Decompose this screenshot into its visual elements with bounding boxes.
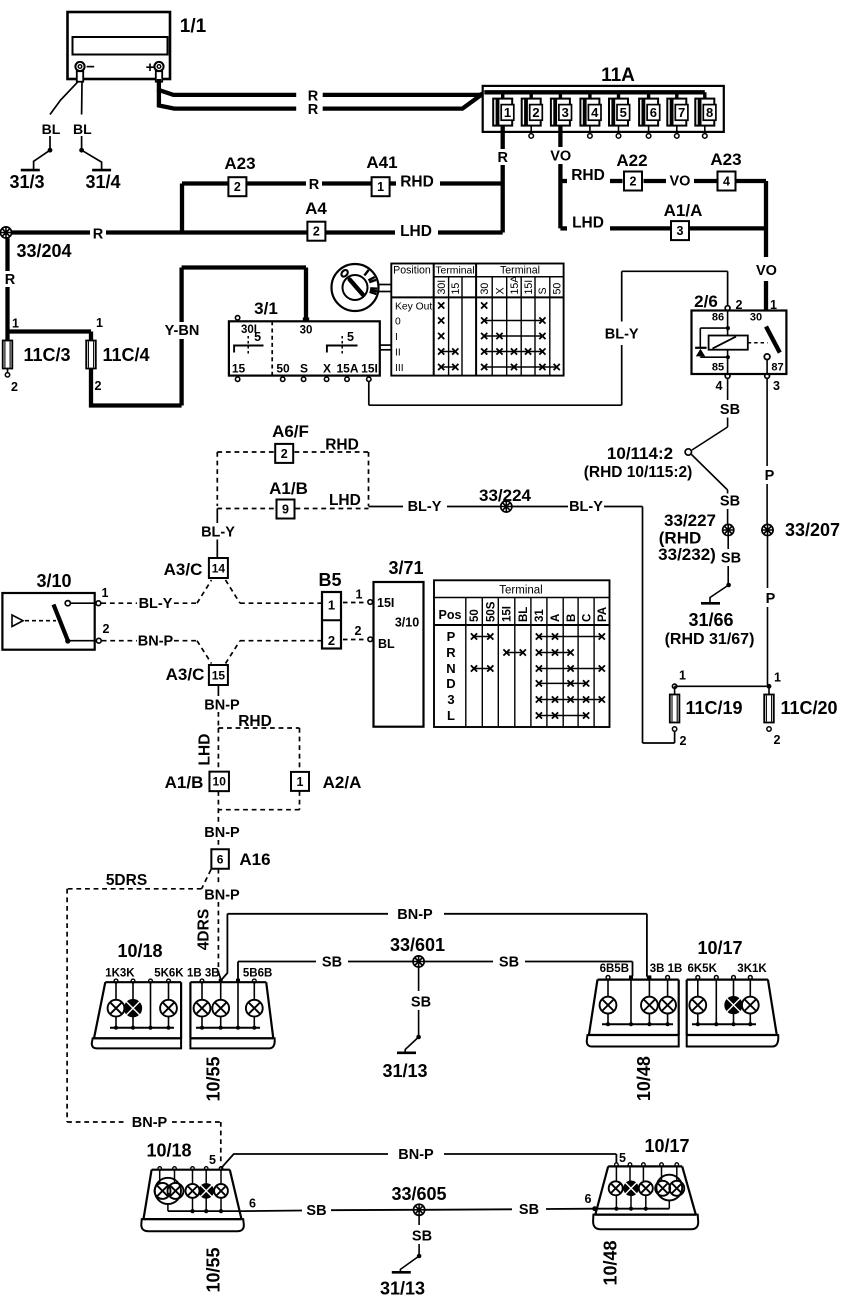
svg-text:SB: SB bbox=[720, 402, 740, 418]
svg-text:50: 50 bbox=[552, 283, 564, 295]
svg-text:6: 6 bbox=[585, 1192, 592, 1206]
svg-text:A: A bbox=[550, 614, 562, 622]
splice 33/227 bbox=[658, 511, 734, 564]
wire LHD branch right (A1/A) bbox=[560, 226, 766, 230]
svg-text:2: 2 bbox=[95, 379, 102, 393]
svg-text:BL: BL bbox=[73, 121, 92, 137]
svg-text:10/17: 10/17 bbox=[644, 1136, 689, 1156]
connector A22 pin 2 bbox=[624, 172, 642, 191]
svg-text:1K3K: 1K3K bbox=[105, 968, 135, 980]
svg-text:BL: BL bbox=[42, 121, 61, 137]
wire Y-BN from fuse 11C/4 to ignition switch 3/1 terminal 30 bbox=[91, 268, 306, 406]
svg-text:3: 3 bbox=[562, 105, 569, 120]
wire dashed B5 pin1 to 3/71 terminal 15I bbox=[343, 588, 366, 603]
svg-text:Position: Position bbox=[393, 265, 431, 277]
wire R from splice 33/204 down to fuse 11C/3 bbox=[5, 238, 9, 341]
svg-text:C: C bbox=[581, 614, 593, 622]
ground 31/66 bbox=[665, 603, 755, 648]
svg-text:BL-Y: BL-Y bbox=[408, 499, 442, 515]
wire RHD dashed branch A2/A bbox=[218, 728, 299, 772]
svg-text:BN-P: BN-P bbox=[398, 1147, 434, 1163]
svg-text:15: 15 bbox=[232, 362, 246, 376]
ground 31/3 bbox=[9, 170, 44, 192]
wire SB lamp row with splice 33/601 bbox=[238, 962, 633, 981]
svg-text:1: 1 bbox=[679, 669, 686, 683]
wire BL-Y from 3/1 terminal 15I to relay 2/6 terminal 86 bbox=[369, 271, 728, 405]
svg-text:SB: SB bbox=[721, 551, 741, 567]
svg-text:6: 6 bbox=[249, 1197, 256, 1211]
wire BN-P dashed 3/10 pin2 to B5 pin2 via A3/C 15 bbox=[102, 641, 321, 664]
wire RHD branch right (A22/A23) bbox=[560, 179, 766, 183]
svg-text:A3/C: A3/C bbox=[166, 665, 205, 684]
svg-text:BN-P: BN-P bbox=[397, 907, 433, 923]
svg-text:X: X bbox=[494, 287, 506, 294]
svg-text:9: 9 bbox=[282, 503, 289, 517]
splice 33/224 bbox=[479, 486, 532, 512]
svg-text:A2/A: A2/A bbox=[323, 773, 362, 792]
svg-text:33/232): 33/232) bbox=[658, 545, 716, 564]
fuse 11C/19 bbox=[670, 669, 743, 749]
svg-text:11C/20: 11C/20 bbox=[780, 698, 837, 718]
svg-text:3/10: 3/10 bbox=[36, 571, 71, 591]
svg-text:1: 1 bbox=[377, 180, 384, 194]
wire SB splice 33/605 to ground 31/13 lower bbox=[400, 1216, 421, 1272]
splice 33/605 bbox=[391, 1184, 446, 1215]
svg-text:1: 1 bbox=[356, 588, 363, 602]
svg-text:D: D bbox=[446, 676, 455, 691]
svg-text:A16: A16 bbox=[239, 850, 270, 869]
svg-text:31/66: 31/66 bbox=[688, 610, 733, 630]
svg-text:30I: 30I bbox=[436, 280, 448, 295]
svg-text:A41: A41 bbox=[366, 153, 397, 172]
svg-text:4: 4 bbox=[716, 379, 723, 393]
connector A2/A pin 1 bbox=[291, 772, 309, 791]
splice 33/207 bbox=[762, 520, 840, 540]
svg-text:BL-Y: BL-Y bbox=[605, 326, 639, 342]
svg-text:2: 2 bbox=[630, 175, 637, 189]
svg-text:III: III bbox=[395, 363, 404, 374]
wire SB bottom row with splice 33/605 bbox=[243, 1192, 597, 1211]
svg-text:1: 1 bbox=[96, 316, 103, 330]
connector A3/C pin 15 bbox=[166, 665, 228, 685]
svg-text:1: 1 bbox=[770, 298, 777, 312]
svg-text:BN-P: BN-P bbox=[138, 634, 174, 650]
svg-text:−: − bbox=[86, 59, 95, 76]
svg-text:3B 1B: 3B 1B bbox=[650, 963, 683, 975]
wire BL-Y splice 33/224 down to fuse 11C/19 bbox=[643, 507, 675, 744]
svg-text:1B 3B: 1B 3B bbox=[187, 968, 220, 980]
svg-text:2: 2 bbox=[11, 380, 18, 394]
connector A6/F pin 2 bbox=[275, 444, 293, 463]
wire BN-P to rear lamps 10/55 and 10/48 bbox=[221, 914, 650, 981]
svg-text:8: 8 bbox=[706, 105, 713, 120]
relay 2/6 bbox=[692, 292, 787, 393]
svg-text:31: 31 bbox=[534, 609, 546, 622]
svg-text:P: P bbox=[765, 468, 775, 484]
wire LHD branch left (A4) to splice 33/204 bbox=[12, 230, 503, 234]
wire BL-Y from A1/B to splice 33/224 bbox=[369, 506, 643, 508]
svg-text:3: 3 bbox=[447, 692, 454, 707]
wire BL battery negative to ground 31/3 bbox=[34, 82, 78, 170]
svg-text:33/605: 33/605 bbox=[391, 1184, 446, 1204]
svg-text:Terminal: Terminal bbox=[499, 585, 542, 597]
svg-text:BL-Y: BL-Y bbox=[569, 499, 603, 515]
svg-text:R: R bbox=[497, 150, 508, 166]
svg-text:R: R bbox=[308, 102, 319, 118]
svg-text:A6/F: A6/F bbox=[272, 422, 309, 441]
svg-text:SB: SB bbox=[519, 1202, 539, 1218]
svg-text:Terminal: Terminal bbox=[500, 264, 540, 276]
svg-text:11A: 11A bbox=[601, 65, 635, 86]
svg-text:4: 4 bbox=[723, 175, 730, 189]
wire VO down to relay 2/6 terminal 30 bbox=[764, 181, 768, 327]
svg-text:3/1: 3/1 bbox=[254, 299, 278, 318]
svg-text:85: 85 bbox=[712, 362, 724, 374]
svg-text:33/224: 33/224 bbox=[479, 486, 532, 505]
wire R from fuse 1 down bbox=[501, 126, 505, 233]
svg-text:A23: A23 bbox=[710, 150, 741, 169]
wire BL-Y from LHD line down to connector A3/C 14 bbox=[216, 509, 218, 558]
svg-text:Key Out: Key Out bbox=[395, 302, 432, 313]
svg-text:2: 2 bbox=[532, 105, 539, 120]
svg-text:2: 2 bbox=[736, 298, 743, 312]
svg-text:1: 1 bbox=[102, 586, 109, 600]
svg-text:50: 50 bbox=[469, 609, 481, 622]
svg-text:30: 30 bbox=[479, 283, 491, 295]
svg-text:31/3: 31/3 bbox=[9, 172, 44, 192]
svg-text:2: 2 bbox=[103, 622, 110, 636]
svg-text:87: 87 bbox=[771, 362, 783, 374]
wire R battery positive feed lower bbox=[159, 90, 483, 109]
fuse 8 of 11A bbox=[695, 92, 716, 138]
connector A1/B pin 10 bbox=[209, 772, 229, 792]
svg-text:10/48: 10/48 bbox=[601, 1240, 621, 1285]
svg-text:7: 7 bbox=[678, 105, 685, 120]
svg-text:LHD: LHD bbox=[572, 215, 604, 232]
table gear selector positions bbox=[434, 580, 610, 727]
svg-text:2: 2 bbox=[313, 225, 320, 239]
fuse box 11A bbox=[483, 65, 724, 132]
svg-text:33/207: 33/207 bbox=[785, 520, 840, 540]
wire BL battery negative to ground 31/4 bbox=[79, 82, 101, 170]
svg-text:33/227: 33/227 bbox=[664, 511, 716, 530]
svg-text:SB: SB bbox=[411, 995, 431, 1011]
svg-text:14: 14 bbox=[212, 561, 226, 575]
svg-text:3/10: 3/10 bbox=[395, 616, 419, 630]
svg-text:1/1: 1/1 bbox=[180, 16, 207, 37]
svg-text:1: 1 bbox=[504, 105, 511, 120]
ground 31/4 bbox=[85, 170, 120, 192]
svg-text:BL-Y: BL-Y bbox=[139, 596, 173, 612]
svg-text:11C/19: 11C/19 bbox=[685, 698, 742, 718]
rear lamp unit 10/18+10/55 (bottom left) bbox=[141, 1141, 244, 1293]
svg-text:30: 30 bbox=[750, 312, 762, 324]
svg-text:SB: SB bbox=[306, 1203, 326, 1219]
svg-text:N: N bbox=[446, 661, 455, 676]
svg-text:3/71: 3/71 bbox=[388, 558, 423, 578]
svg-text:10: 10 bbox=[213, 775, 227, 789]
svg-text:Terminal: Terminal bbox=[435, 265, 474, 276]
svg-text:15: 15 bbox=[450, 283, 462, 295]
wire RHD branch left (A23/A41) bbox=[182, 184, 503, 233]
table ignition switch positions bbox=[391, 264, 563, 376]
ignition switch 3/1 bbox=[229, 299, 391, 381]
svg-text:(RHD 31/67): (RHD 31/67) bbox=[665, 631, 755, 648]
fuse 4 of 11A bbox=[580, 92, 601, 138]
ground 31/13 lower bbox=[380, 1272, 425, 1297]
svg-text:10/48: 10/48 bbox=[634, 1056, 654, 1101]
wire SB relay 85 to connector 10/114:2 bbox=[692, 378, 728, 450]
svg-text:15A: 15A bbox=[336, 362, 358, 376]
svg-text:BN-P: BN-P bbox=[204, 698, 240, 714]
svg-text:B: B bbox=[566, 614, 578, 622]
rear lamp unit 10/17 (top right) bbox=[687, 938, 779, 1047]
svg-text:VO: VO bbox=[550, 149, 571, 165]
svg-text:BL-Y: BL-Y bbox=[201, 525, 235, 541]
connector A23 pin 4 bbox=[718, 172, 736, 191]
svg-text:3: 3 bbox=[677, 224, 684, 238]
svg-text:10/55: 10/55 bbox=[203, 1056, 223, 1101]
svg-text:11C/3: 11C/3 bbox=[23, 345, 70, 365]
svg-text:5K6K: 5K6K bbox=[154, 968, 184, 980]
switch 3/10 (gear selector inhibitor) bbox=[2, 571, 109, 650]
svg-text:31/13: 31/13 bbox=[380, 1279, 425, 1297]
connector A41 pin 1 bbox=[372, 177, 390, 196]
svg-text:2: 2 bbox=[680, 734, 687, 748]
svg-text:SB: SB bbox=[322, 955, 342, 971]
svg-text:15A: 15A bbox=[509, 275, 521, 295]
svg-text:RHD: RHD bbox=[325, 437, 359, 454]
rear lamp unit 10/55 (top) bbox=[187, 968, 275, 1102]
svg-text:VO: VO bbox=[756, 263, 777, 279]
svg-text:B5: B5 bbox=[318, 570, 341, 590]
wire dashed below A1/B and A2/A merge bbox=[218, 791, 299, 849]
svg-text:3K1K: 3K1K bbox=[737, 963, 767, 975]
fuse 5 of 11A bbox=[609, 92, 630, 138]
wire P splice 33/207 to fuse 11C/20 bbox=[767, 536, 769, 685]
svg-text:BN-P: BN-P bbox=[132, 1115, 168, 1131]
svg-text:15I: 15I bbox=[361, 362, 378, 376]
svg-text:2: 2 bbox=[774, 733, 781, 747]
svg-text:Pos: Pos bbox=[439, 608, 462, 622]
svg-text:6K5K: 6K5K bbox=[687, 963, 717, 975]
svg-text:1: 1 bbox=[297, 775, 304, 789]
svg-text:5: 5 bbox=[347, 330, 354, 344]
wire SB splice 33/601 to ground 31/13 bbox=[405, 967, 421, 1051]
svg-text:15I: 15I bbox=[523, 280, 535, 295]
gear selector switch 3/71 bbox=[368, 558, 424, 727]
ground 31/13 upper bbox=[382, 1053, 427, 1081]
svg-text:R: R bbox=[5, 272, 16, 288]
svg-text:86: 86 bbox=[712, 312, 724, 324]
svg-text:RHD: RHD bbox=[238, 713, 272, 730]
svg-text:5: 5 bbox=[620, 105, 627, 120]
svg-text:2: 2 bbox=[281, 447, 288, 461]
fuse 2 of 11A bbox=[522, 92, 543, 138]
wire BN-P dashed A16 to 10/55 pin 3B (4DRS) bbox=[218, 869, 220, 979]
fuse 7 of 11A bbox=[667, 92, 688, 138]
svg-text:50S: 50S bbox=[486, 601, 498, 622]
svg-text:10/17: 10/17 bbox=[697, 938, 742, 958]
svg-text:R: R bbox=[446, 645, 456, 660]
svg-text:A4: A4 bbox=[305, 199, 327, 218]
svg-text:BN-P: BN-P bbox=[204, 825, 240, 841]
splice 33/601 bbox=[390, 935, 445, 967]
svg-text:X: X bbox=[323, 362, 331, 376]
fuse 11C/3 bbox=[3, 317, 71, 395]
svg-text:2: 2 bbox=[355, 624, 362, 638]
svg-text:II: II bbox=[395, 348, 401, 359]
fuse 1 of 11A bbox=[493, 92, 514, 125]
svg-text:R: R bbox=[309, 177, 320, 193]
svg-text:50: 50 bbox=[276, 362, 290, 376]
svg-text:RHD: RHD bbox=[400, 174, 434, 191]
svg-text:BN-P: BN-P bbox=[204, 888, 240, 904]
svg-text:P: P bbox=[766, 591, 776, 607]
battery 1/1 bbox=[68, 12, 207, 82]
svg-text:33/601: 33/601 bbox=[390, 935, 445, 955]
svg-text:S: S bbox=[537, 287, 549, 294]
svg-text:31/4: 31/4 bbox=[85, 172, 120, 192]
svg-text:1: 1 bbox=[328, 598, 335, 613]
svg-text:30: 30 bbox=[300, 325, 313, 337]
svg-text:0: 0 bbox=[395, 317, 401, 328]
svg-text:2/6: 2/6 bbox=[694, 292, 718, 311]
svg-text:4: 4 bbox=[591, 105, 599, 120]
svg-text:S: S bbox=[300, 362, 308, 376]
svg-text:6B5B: 6B5B bbox=[600, 963, 629, 975]
wire BN-P from A3/C 15 down bbox=[217, 686, 219, 729]
connector A4 pin 2 bbox=[307, 222, 325, 241]
svg-text:L: L bbox=[447, 708, 455, 723]
svg-text:A1/A: A1/A bbox=[664, 201, 703, 220]
svg-text:1: 1 bbox=[774, 671, 781, 685]
fuse 11C/20 bbox=[764, 671, 837, 748]
wire VO from fuse 3 down bbox=[558, 126, 562, 229]
splice 33/204 bbox=[0, 227, 71, 261]
wire SB connector to splice 33/227 bbox=[692, 455, 728, 525]
fuse 3 of 11A bbox=[551, 92, 572, 125]
svg-text:3: 3 bbox=[773, 379, 780, 393]
svg-text:11C/4: 11C/4 bbox=[102, 345, 149, 365]
svg-text:BL: BL bbox=[378, 637, 395, 651]
wire P relay 87 to splice 33/207 bbox=[766, 378, 768, 524]
connector 10/114:2 bbox=[584, 444, 693, 481]
svg-text:VO: VO bbox=[670, 173, 691, 189]
svg-text:5B6B: 5B6B bbox=[243, 968, 272, 980]
svg-text:15: 15 bbox=[212, 668, 226, 682]
ignition key dial bbox=[332, 264, 392, 311]
svg-text:A1/B: A1/B bbox=[269, 479, 308, 498]
svg-text:LHD: LHD bbox=[329, 492, 361, 509]
svg-text:5: 5 bbox=[254, 330, 261, 344]
fuse 6 of 11A bbox=[639, 92, 660, 138]
connector A1/B pin 9 bbox=[277, 500, 295, 519]
wire dashed B5 pin2 to 3/71 terminal BL bbox=[343, 624, 366, 640]
svg-text:BL: BL bbox=[518, 607, 530, 622]
svg-text:5: 5 bbox=[619, 1151, 626, 1165]
svg-text:2: 2 bbox=[234, 180, 241, 194]
svg-text:6: 6 bbox=[217, 852, 224, 866]
svg-text:+: + bbox=[146, 59, 155, 76]
svg-text:33/204: 33/204 bbox=[16, 241, 71, 261]
svg-text:15I: 15I bbox=[502, 606, 514, 622]
connector A23 pin 2 bbox=[228, 177, 246, 196]
connector B5 bbox=[318, 570, 341, 649]
svg-text:A1/B: A1/B bbox=[165, 773, 204, 792]
svg-text:LHD: LHD bbox=[400, 223, 432, 240]
svg-text:A3/C: A3/C bbox=[164, 560, 203, 579]
rear lamp unit 10/18 (left) bbox=[92, 941, 185, 1048]
wire BL-Y dashed 3/10 pin1 to B5 pin1 via A3/C 14 bbox=[101, 580, 321, 603]
wire BN-P bottom row bbox=[221, 1154, 616, 1168]
svg-text:10/55: 10/55 bbox=[204, 1247, 224, 1292]
rear lamp unit 10/48 (top) bbox=[587, 963, 683, 1101]
fuse 11C/4 bbox=[86, 316, 149, 393]
svg-text:15I: 15I bbox=[377, 596, 394, 610]
svg-text:10/18: 10/18 bbox=[117, 941, 162, 961]
wire SB splice 33/227 to ground 31/66 bbox=[710, 536, 731, 602]
wire LHD dashed to A1/B pin 10 bbox=[217, 728, 219, 772]
svg-text:(RHD 10/115:2): (RHD 10/115:2) bbox=[584, 464, 693, 481]
svg-text:5: 5 bbox=[209, 1153, 216, 1167]
svg-text:PA: PA bbox=[597, 607, 609, 622]
svg-text:P: P bbox=[447, 629, 456, 644]
wire link 11C/19 pin1 to 11C/20 pin1 bbox=[675, 685, 769, 687]
svg-text:SB: SB bbox=[720, 494, 740, 510]
connector A1/A pin 3 bbox=[671, 221, 689, 240]
svg-text:A22: A22 bbox=[616, 151, 647, 170]
svg-text:RHD: RHD bbox=[571, 167, 605, 184]
svg-text:A23: A23 bbox=[224, 154, 255, 173]
wire 5DRS dashed branch bbox=[67, 870, 221, 1166]
wire RHD dashed branch A6/F bbox=[217, 452, 368, 506]
wire link fuse 11C/3 / 11C/4 tops bbox=[8, 329, 92, 333]
wire LHD dashed branch A1/B pin 9 bbox=[217, 508, 368, 510]
svg-text:LHD: LHD bbox=[197, 734, 214, 766]
svg-text:I: I bbox=[395, 332, 398, 343]
connector A3/C pin 14 bbox=[164, 558, 228, 579]
svg-text:5DRS: 5DRS bbox=[106, 872, 147, 889]
svg-text:2: 2 bbox=[328, 633, 335, 648]
svg-text:SB: SB bbox=[499, 955, 519, 971]
svg-text:6: 6 bbox=[650, 105, 657, 120]
svg-text:1: 1 bbox=[12, 317, 19, 331]
svg-text:4DRS: 4DRS bbox=[196, 909, 213, 950]
svg-text:10/114:2: 10/114:2 bbox=[607, 444, 673, 463]
rear lamp unit 10/17+10/48 (bottom right) bbox=[593, 1136, 698, 1286]
svg-text:Y-BN: Y-BN bbox=[165, 323, 200, 339]
connector A16 pin 6 bbox=[211, 849, 229, 869]
svg-text:10/18: 10/18 bbox=[146, 1141, 191, 1161]
svg-text:SB: SB bbox=[412, 1229, 432, 1245]
wire R battery positive feed upper bbox=[159, 79, 488, 95]
svg-text:R: R bbox=[93, 227, 104, 243]
svg-text:31/13: 31/13 bbox=[382, 1061, 427, 1081]
